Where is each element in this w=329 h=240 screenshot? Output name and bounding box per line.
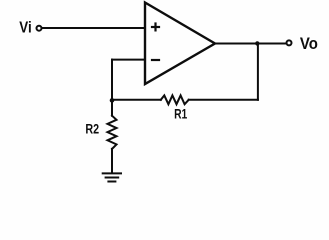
- svg-text:R1: R1: [174, 107, 187, 122]
- svg-text:Vi: Vi: [19, 20, 31, 37]
- svg-text:Vo: Vo: [300, 34, 318, 53]
- svg-text:R2: R2: [85, 122, 99, 138]
